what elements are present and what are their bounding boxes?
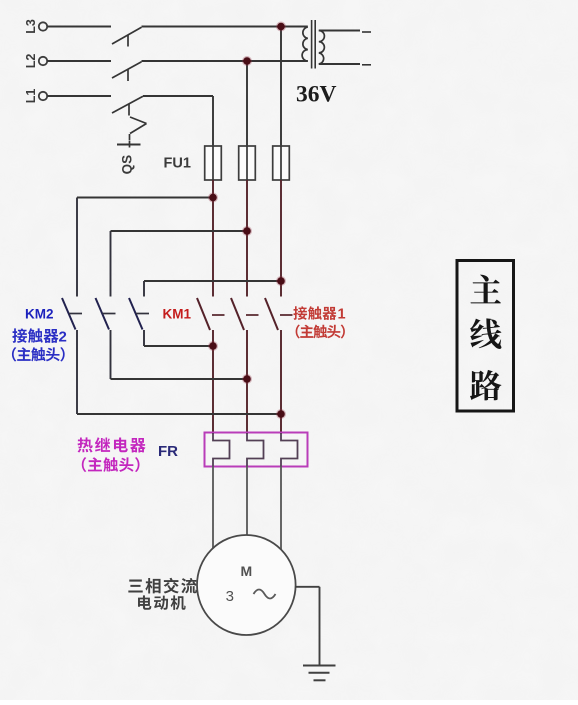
svg-text:FR: FR: [158, 443, 178, 460]
svg-text:2: 2: [59, 329, 67, 346]
svg-text:3: 3: [226, 588, 234, 605]
svg-text:L3: L3: [24, 19, 38, 34]
svg-text:M: M: [240, 563, 252, 579]
svg-text:KM1: KM1: [163, 307, 192, 322]
svg-text:KM2: KM2: [25, 307, 54, 322]
svg-text:QS: QS: [120, 155, 135, 175]
svg-text:36V: 36V: [296, 82, 337, 108]
svg-text:L2: L2: [24, 54, 38, 69]
svg-text:FU1: FU1: [164, 156, 191, 172]
svg-text:L1: L1: [24, 89, 38, 104]
svg-text:1: 1: [338, 307, 346, 323]
